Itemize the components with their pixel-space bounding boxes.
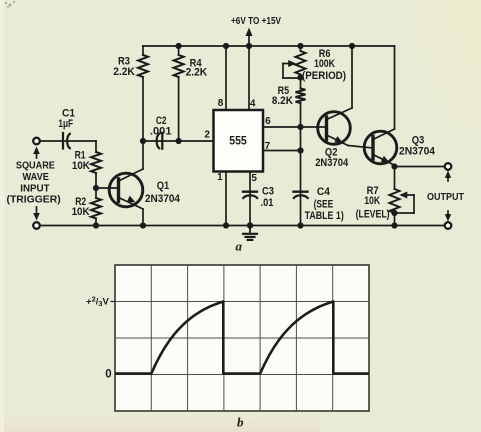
- pin 1: [225, 172, 227, 226]
- output arrow up: [447, 174, 449, 181]
- R7 wiper arrow: [399, 192, 407, 199]
- svg-text:(LEVEL): (LEVEL): [356, 208, 390, 220]
- node junction Q1 emitter rail: [140, 222, 146, 228]
- transistor Q1 2N3704: [96, 141, 143, 226]
- node junction R4 bottom: [176, 138, 182, 144]
- svg-text:SQUARE: SQUARE: [16, 161, 55, 172]
- svg-text:2N3704: 2N3704: [399, 145, 435, 157]
- node junction R2 rail: [93, 222, 99, 228]
- input arrow down: [36, 207, 38, 214]
- node junction C4 rail: [297, 222, 303, 228]
- node junction pin8 top: [223, 43, 229, 49]
- node junction R7 rail: [391, 222, 397, 228]
- wire output top: [395, 166, 445, 168]
- svg-text:10K: 10K: [72, 206, 90, 218]
- graph tick 2/3V: [111, 301, 115, 303]
- waveform sawtooth: [115, 302, 369, 374]
- svg-text:(PERIOD): (PERIOD): [302, 70, 346, 82]
- output terminal top: [445, 163, 452, 170]
- pin 8: [225, 46, 227, 110]
- resistor R3 2.2K: [142, 46, 144, 55]
- input terminal bottom: [33, 222, 40, 229]
- resistor R2 10K: [91, 198, 101, 219]
- svg-text:0: 0: [105, 368, 111, 380]
- ground: [249, 226, 251, 234]
- output terminal bottom: [445, 222, 452, 229]
- transistor Q3 2N3704: [364, 46, 397, 165]
- graph grid: [115, 265, 369, 411]
- svg-text:.001: .001: [150, 125, 172, 137]
- svg-text:OUTPUT: OUTPUT: [427, 192, 465, 203]
- svg-text:Q1: Q1: [157, 180, 170, 192]
- svg-text:+6V TO +15V: +6V TO +15V: [231, 16, 281, 27]
- svg-text:5: 5: [251, 173, 257, 184]
- svg-text:7: 7: [265, 141, 271, 152]
- svg-text:C3: C3: [262, 185, 274, 197]
- svg-text:10K: 10K: [72, 160, 90, 172]
- svg-text:INPUT: INPUT: [20, 183, 50, 194]
- node junction R6 top: [297, 43, 303, 49]
- svg-text:555: 555: [229, 136, 247, 148]
- pin 5: [249, 172, 251, 226]
- node junction R1 R2 base: [93, 185, 99, 191]
- graph box: [115, 265, 369, 411]
- resistor R4 2.2K: [178, 46, 180, 55]
- svg-text:TABLE 1): TABLE 1): [305, 210, 345, 222]
- resistor R5 8.2K: [296, 89, 306, 104]
- capacitor C3 .01: [243, 191, 257, 193]
- node junction Q1 collector C2: [140, 138, 146, 144]
- resistor R1 10K: [91, 152, 101, 173]
- node junction pin1 rail: [223, 222, 229, 228]
- svg-text:.01: .01: [261, 197, 274, 209]
- pin 6: [263, 126, 327, 128]
- potentiometer R6 100K (PERIOD): [300, 46, 302, 51]
- node junction C3 ground rail: [247, 222, 253, 228]
- input arrow up: [36, 152, 38, 158]
- svg-text:1μF: 1μF: [58, 118, 73, 130]
- svg-text:4: 4: [250, 99, 256, 110]
- wire bottom rail: [40, 225, 448, 227]
- svg-text:6: 6: [265, 116, 271, 127]
- node junction Q2 collector top: [349, 43, 355, 49]
- svg-text:100K: 100K: [314, 58, 335, 70]
- svg-text:(TRIGGER): (TRIGGER): [6, 195, 60, 206]
- node junction pin6 node: [297, 124, 303, 130]
- svg-text:C4: C4: [317, 186, 330, 198]
- svg-text:10K: 10K: [364, 195, 380, 207]
- svg-text:1: 1: [217, 172, 223, 183]
- svg-text:+2/3V: +2/3V: [86, 295, 109, 308]
- svg-text:(SEE: (SEE: [314, 199, 334, 211]
- wire top supply rail: [143, 45, 395, 47]
- svg-text:2.2K: 2.2K: [113, 66, 135, 78]
- capacitor C2 .001: [143, 140, 214, 142]
- input terminal top: [40, 140, 62, 142]
- svg-text:a: a: [236, 239, 243, 254]
- pin 7: [263, 150, 301, 152]
- transistor Q2 2N3704: [318, 46, 373, 148]
- node junction pin4 supply: [246, 43, 252, 49]
- potentiometer R7 10K (LEVEL): [394, 167, 396, 190]
- output arrow down: [447, 211, 449, 217]
- capacitor C1 1uF: [62, 140, 96, 142]
- node junction R4 top: [176, 43, 182, 49]
- R6 wiper arrow: [283, 63, 289, 65]
- svg-text:2N3704: 2N3704: [145, 193, 180, 205]
- svg-text:2N3704: 2N3704: [315, 157, 348, 169]
- wire C1 to R1 corner: [95, 141, 97, 152]
- IC 555 timer U1: [214, 110, 264, 172]
- node junction R6 wiper: [297, 74, 303, 80]
- node junction R7 wiper: [391, 210, 397, 216]
- svg-text:WAVE: WAVE: [23, 172, 50, 183]
- svg-text:8.2K: 8.2K: [272, 95, 293, 107]
- node junction Q3 emitter output: [391, 163, 397, 169]
- svg-text:2.2K: 2.2K: [186, 67, 208, 79]
- capacitor C4 (SEE TABLE 1): [300, 151, 302, 226]
- svg-text:b: b: [237, 414, 244, 429]
- node junction pin7 node: [297, 147, 303, 153]
- svg-text:8: 8: [218, 98, 224, 109]
- pin 4: [248, 46, 250, 110]
- supply arrow +6V TO +15V: [248, 34, 250, 46]
- svg-text:2: 2: [204, 130, 210, 141]
